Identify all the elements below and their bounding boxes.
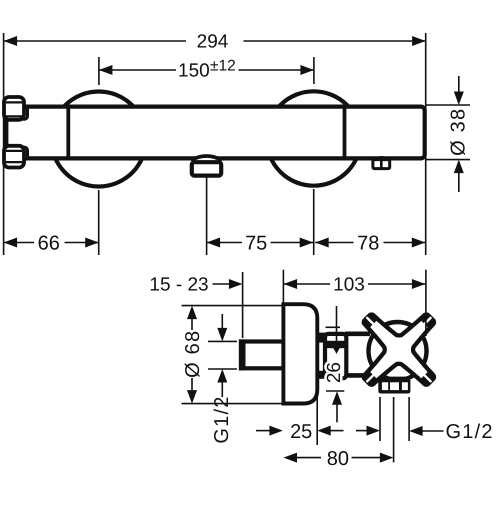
dim 26 lower tick [326, 390, 344, 392]
extension line escutcheon face top [282, 270, 284, 304]
G1/2 supply extent top [208, 340, 237, 342]
valve scale band [327, 341, 345, 348]
svg-text:±12: ±12 [210, 58, 236, 75]
valve interface tabs [316, 333, 327, 343]
svg-text:G1/2: G1/2 [446, 421, 494, 443]
centerline left circle lower [98, 190, 100, 255]
dia 68 arrow down [191, 378, 193, 390]
dim 15-23 arrow [229, 279, 243, 289]
svg-text:150: 150 [178, 61, 210, 82]
svg-text:80: 80 [327, 448, 349, 470]
dim 80 arrow left [284, 453, 298, 463]
hose extension line left [379, 397, 381, 441]
dim 150 arrow right [300, 65, 314, 75]
svg-text:Ø 68: Ø 68 [182, 330, 204, 378]
valve neck bottom line [345, 373, 370, 378]
dim 78 arrow right [412, 238, 426, 248]
cross handle [364, 314, 434, 384]
dim 66 arrow left [4, 238, 18, 248]
dim 25 arrow left [256, 430, 271, 432]
wall bracket spine [4, 99, 8, 165]
hose extension line center [393, 397, 395, 463]
dia 68 arrow up [187, 306, 197, 320]
svg-text:294: 294 [197, 32, 229, 53]
wall bracket bottom lug [4, 146, 24, 168]
wall bracket top lug [4, 97, 24, 120]
svg-text:G1/2: G1/2 [211, 395, 233, 443]
dim 150 line [99, 69, 176, 71]
escutcheon disc side view [283, 304, 317, 403]
dim 150 arrow left [99, 65, 113, 75]
dim 80 arrow right [352, 457, 381, 459]
G1/2 supply extent bottom [208, 368, 237, 370]
dim 103 arrow right [412, 279, 426, 289]
hose extension line right [408, 397, 410, 441]
svg-text:78: 78 [357, 233, 379, 255]
dia 38 top extent [426, 104, 470, 106]
svg-text:75: 75 [245, 233, 267, 255]
extension line outlet [206, 177, 208, 256]
small connector box under bar right [375, 157, 387, 159]
right escutcheon circle [267, 91, 361, 185]
shower outlet arch [191, 156, 222, 160]
dim 75 line [207, 242, 242, 244]
handle circle [369, 322, 427, 380]
svg-text:103: 103 [333, 275, 365, 296]
shower outlet box [192, 162, 221, 175]
dim 66 arrow right [85, 238, 99, 248]
dia 38 arrow up [454, 160, 464, 174]
extension line handle front [425, 270, 427, 336]
left escutcheon circle [51, 92, 146, 187]
dim 15-23 leader [213, 283, 231, 285]
dim 26 arrow up [332, 391, 342, 405]
svg-text:15 - 23: 15 - 23 [149, 274, 208, 295]
dim 150 tick right [313, 57, 315, 84]
G1/2 supply arrow down [221, 314, 223, 329]
svg-text:25: 25 [290, 421, 312, 443]
valve neck top line [345, 331, 370, 336]
supply stub [241, 342, 284, 369]
handle tip caps [421, 371, 434, 384]
dim 294 line [4, 40, 186, 42]
extension line disc rear [316, 395, 318, 445]
dim 150 tick left [98, 57, 100, 85]
dim 75 arrow right [300, 238, 314, 248]
mixer bar body fill [22, 105, 427, 161]
dia 68 bottom extent line [182, 403, 283, 405]
G1/2 supply arrow up [217, 369, 227, 383]
dia 68 top extent line [182, 305, 283, 307]
bar divider left [66, 107, 70, 159]
wall bracket top nub [21, 107, 28, 120]
dim 75 arrow left [207, 238, 221, 248]
mixer bar outline [24, 107, 425, 159]
dia 38 arrow down [458, 76, 460, 93]
dim 26 arrow down [330, 342, 343, 354]
dim 294 arrow right [412, 36, 426, 46]
wall extension line left [3, 33, 5, 255]
handle tip slivers [424, 375, 431, 382]
dim 294 arrow left [4, 36, 18, 46]
dim 26 shaft top [336, 306, 338, 342]
dim 103 arrow left [284, 279, 298, 289]
extension line wall plane [242, 272, 244, 338]
dim 66 line [4, 242, 34, 244]
dim 25 arrow right [317, 426, 331, 436]
dim 78 line [315, 242, 353, 244]
dim 103 line [284, 283, 330, 285]
hose nut [378, 377, 410, 394]
thermostat valve body [325, 334, 346, 378]
extension line right end / dia38 [425, 33, 427, 255]
dia 38 bottom extent [426, 159, 470, 161]
hose chain arrow [356, 430, 368, 432]
svg-text:66: 66 [38, 233, 60, 255]
dim 78 arrow left [315, 238, 329, 248]
wall bracket bottom nub [21, 147, 28, 160]
centerline right circle lower [313, 189, 315, 255]
G1/2 hose arrow [409, 426, 423, 436]
dim 26 tick [326, 326, 341, 328]
bar divider right [343, 107, 347, 159]
svg-text:26: 26 [324, 362, 345, 383]
svg-text:Ø 38: Ø 38 [448, 108, 470, 156]
